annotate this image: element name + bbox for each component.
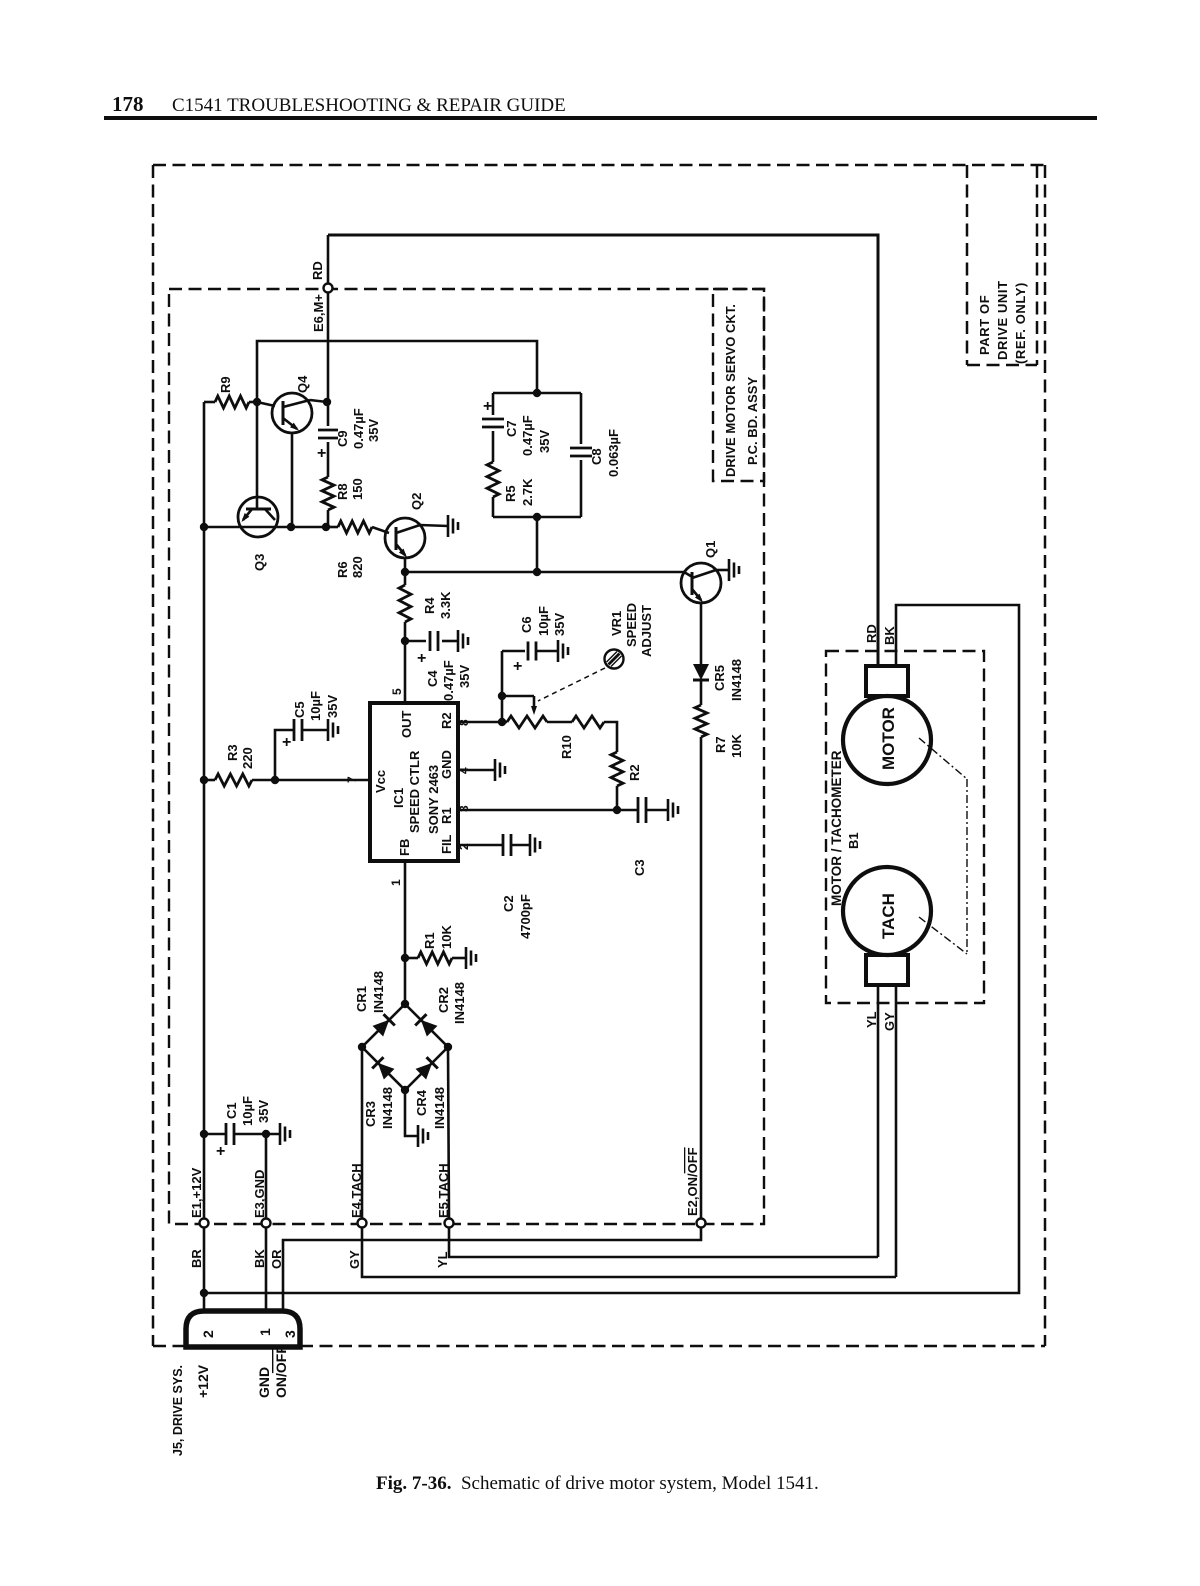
- svg-text:4700pF: 4700pF: [518, 894, 533, 939]
- svg-text:R6: R6: [335, 561, 350, 578]
- svg-text:YL: YL: [435, 1251, 450, 1268]
- svg-text:+: +: [417, 650, 426, 667]
- svg-text:Q1: Q1: [703, 541, 718, 558]
- svg-text:CR3: CR3: [363, 1101, 378, 1127]
- svg-text:2: 2: [200, 1330, 216, 1338]
- svg-text:C9: C9: [335, 430, 350, 447]
- svg-text:Q3: Q3: [252, 554, 267, 571]
- svg-text:Fig. 7-36. Schematic of drive: Fig. 7-36. Schematic of drive motor syst…: [376, 1473, 819, 1494]
- svg-text:35V: 35V: [457, 665, 472, 688]
- svg-text:B1: B1: [846, 832, 861, 849]
- svg-text:CR2: CR2: [436, 987, 451, 1013]
- svg-text:+: +: [483, 398, 492, 415]
- svg-text:GND: GND: [256, 1367, 272, 1398]
- svg-text:1: 1: [389, 879, 403, 886]
- svg-text:OR: OR: [269, 1249, 284, 1269]
- svg-text:C2: C2: [501, 895, 516, 912]
- svg-text:MOTOR: MOTOR: [879, 707, 898, 770]
- svg-text:ADJUST: ADJUST: [639, 605, 654, 657]
- svg-text:C8: C8: [589, 448, 604, 465]
- svg-text:35V: 35V: [552, 613, 567, 636]
- svg-text:E5,TACH: E5,TACH: [436, 1163, 451, 1218]
- svg-text:7: 7: [345, 776, 359, 783]
- svg-text:10µF: 10µF: [240, 1096, 255, 1126]
- svg-text:8: 8: [457, 719, 471, 726]
- svg-text:R7: R7: [713, 736, 728, 753]
- svg-text:E3,GND: E3,GND: [252, 1170, 267, 1218]
- svg-text:BK: BK: [882, 626, 897, 645]
- svg-text:E2,ON/OFF: E2,ON/OFF: [685, 1147, 700, 1216]
- svg-text:R1: R1: [439, 807, 454, 824]
- svg-text:E4,TACH: E4,TACH: [349, 1163, 364, 1218]
- svg-text:PART OF: PART OF: [977, 295, 992, 355]
- svg-text:5: 5: [390, 688, 404, 695]
- svg-text:178: 178: [112, 92, 144, 116]
- svg-text:0.063µF: 0.063µF: [606, 429, 621, 477]
- svg-text:(REF. ONLY): (REF. ONLY): [1013, 282, 1028, 364]
- svg-text:CR1: CR1: [354, 986, 369, 1012]
- svg-text:YL: YL: [864, 1011, 879, 1028]
- svg-text:P.C. BD. ASSY: P.C. BD. ASSY: [745, 377, 760, 465]
- svg-text:35V: 35V: [537, 430, 552, 453]
- svg-text:R4: R4: [422, 597, 437, 614]
- svg-text:IC1: IC1: [391, 788, 406, 808]
- svg-text:+: +: [216, 1143, 225, 1160]
- svg-text:MOTOR / TACHOMETER: MOTOR / TACHOMETER: [829, 750, 844, 906]
- svg-text:R2: R2: [627, 764, 642, 781]
- svg-text:BR: BR: [189, 1249, 204, 1268]
- svg-text:3: 3: [457, 805, 471, 812]
- svg-text:IN4148: IN4148: [432, 1087, 447, 1129]
- svg-text:C4: C4: [425, 670, 440, 687]
- svg-text:RD: RD: [310, 261, 325, 280]
- svg-text:35V: 35V: [325, 695, 340, 718]
- svg-text:C3: C3: [632, 859, 647, 876]
- svg-text:IN4148: IN4148: [371, 971, 386, 1013]
- svg-text:C5: C5: [292, 701, 307, 718]
- svg-text:Q4: Q4: [295, 375, 310, 393]
- svg-text:R1: R1: [422, 932, 437, 949]
- svg-text:0.47µF: 0.47µF: [351, 408, 366, 449]
- svg-text:IN4148: IN4148: [452, 982, 467, 1024]
- svg-text:0.47µF: 0.47µF: [441, 660, 456, 701]
- svg-text:CR5: CR5: [712, 665, 727, 691]
- svg-text:DRIVE MOTOR SERVO CKT.: DRIVE MOTOR SERVO CKT.: [723, 304, 738, 477]
- svg-text:E6,M+: E6,M+: [311, 294, 326, 332]
- svg-text:BK: BK: [252, 1249, 267, 1268]
- svg-text:C1: C1: [224, 1102, 239, 1119]
- svg-text:10K: 10K: [729, 734, 744, 758]
- svg-text:10K: 10K: [439, 925, 454, 949]
- svg-text:C1541 TROUBLESHOOTING & REPAIR: C1541 TROUBLESHOOTING & REPAIR GUIDE: [172, 95, 566, 116]
- svg-text:0.47µF: 0.47µF: [520, 415, 535, 456]
- svg-text:SPEED CTLR: SPEED CTLR: [407, 750, 422, 833]
- svg-text:4: 4: [457, 767, 471, 774]
- svg-text:35V: 35V: [366, 419, 381, 442]
- svg-text:3.3K: 3.3K: [438, 591, 453, 619]
- svg-text:R5: R5: [503, 485, 518, 502]
- svg-text:ON/OFF: ON/OFF: [273, 1345, 289, 1398]
- svg-text:R9: R9: [218, 376, 233, 393]
- svg-text:150: 150: [350, 478, 365, 500]
- svg-text:OUT: OUT: [399, 711, 414, 739]
- svg-text:2: 2: [457, 843, 471, 850]
- svg-text:RD: RD: [864, 624, 879, 643]
- svg-text:R3: R3: [225, 744, 240, 761]
- svg-text:C6: C6: [519, 616, 534, 633]
- svg-text:FIL: FIL: [439, 834, 454, 854]
- svg-text:R2: R2: [439, 712, 454, 729]
- svg-text:220: 220: [240, 747, 255, 769]
- svg-text:TACH: TACH: [879, 893, 898, 939]
- svg-text:3: 3: [282, 1330, 298, 1338]
- svg-text:+: +: [282, 734, 291, 751]
- svg-text:GND: GND: [439, 750, 454, 779]
- svg-text:E1,+12V: E1,+12V: [189, 1167, 204, 1218]
- svg-text:CR4: CR4: [414, 1089, 429, 1116]
- svg-text:+: +: [317, 445, 326, 462]
- svg-text:IN4148: IN4148: [729, 659, 744, 701]
- svg-text:10µF: 10µF: [308, 691, 323, 721]
- svg-text:1: 1: [257, 1328, 273, 1336]
- svg-text:VR1: VR1: [609, 611, 624, 636]
- svg-text:SPEED: SPEED: [624, 603, 639, 647]
- svg-text:+: +: [513, 658, 522, 675]
- svg-text:10µF: 10µF: [536, 606, 551, 636]
- svg-text:DRIVE UNIT: DRIVE UNIT: [995, 280, 1010, 360]
- svg-text:C7: C7: [504, 420, 519, 437]
- svg-text:35V: 35V: [256, 1100, 271, 1123]
- svg-text:820: 820: [350, 556, 365, 578]
- svg-text:FB: FB: [397, 839, 412, 856]
- svg-text:R10: R10: [559, 735, 574, 759]
- svg-text:Q2: Q2: [409, 493, 424, 510]
- svg-text:R8: R8: [335, 483, 350, 500]
- svg-text:2.7K: 2.7K: [520, 478, 535, 506]
- svg-text:IN4148: IN4148: [380, 1087, 395, 1129]
- svg-text:J5, DRIVE SYS.: J5, DRIVE SYS.: [171, 1365, 185, 1456]
- svg-text:Vcc: Vcc: [373, 770, 388, 793]
- svg-text:GY: GY: [347, 1250, 362, 1269]
- svg-text:+12V: +12V: [195, 1364, 211, 1398]
- svg-text:GY: GY: [882, 1012, 897, 1031]
